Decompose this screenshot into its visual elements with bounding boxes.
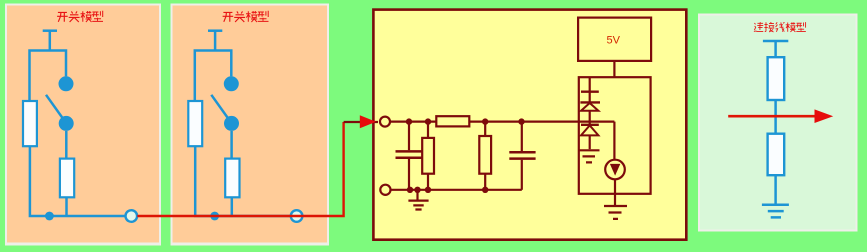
current source I1 circle <box>605 160 625 180</box>
capacitor C2 plates <box>509 152 535 158</box>
wire 5V box to diode block <box>613 61 615 78</box>
ground G1 bars <box>408 201 428 210</box>
switch model circuit panel 1 <box>23 31 137 222</box>
node dot top A <box>406 118 412 124</box>
capacitor C2 top lead <box>521 122 523 151</box>
diode D1 cathode bar upper <box>581 90 599 92</box>
bottom wire P2 rail <box>391 189 522 191</box>
diode D1 stem <box>589 92 591 103</box>
wire RA to RB <box>774 100 777 134</box>
port P2 circle <box>380 185 390 195</box>
capacitor C1 bottom lead <box>408 159 410 190</box>
capacitor C1 plates <box>396 151 423 157</box>
shunt resistor R2 leads <box>427 122 429 190</box>
red signal wire from panel1 terminal through panel2 <box>137 122 343 216</box>
current source I1 arrow <box>610 164 620 176</box>
wire-model terminal T bar <box>763 40 788 43</box>
red arrowhead into P1 <box>360 115 376 128</box>
red flow arrowhead <box>815 109 834 123</box>
wire R1 to current source branch <box>469 120 614 122</box>
label 开关模型 panel 2 <box>223 11 269 22</box>
shunt resistor R2 <box>422 138 434 174</box>
diode D2 cathode bar <box>581 124 599 126</box>
switch model circuit panel 2 <box>188 31 302 222</box>
wire-model resistor RB <box>768 134 785 176</box>
external ground stem <box>614 194 616 205</box>
red flow arrow line <box>728 115 816 118</box>
maroon wire stub into port P1 <box>344 121 378 123</box>
5V source box <box>578 18 651 61</box>
panel 2 frame (switch model) <box>171 4 330 246</box>
node dot bottom A <box>407 187 413 193</box>
ground G1 stem <box>416 190 418 200</box>
node dot top C <box>482 118 488 124</box>
wire RB to ground <box>774 175 777 203</box>
wire P1 to series resistor <box>390 120 436 122</box>
label 连接线模型 panel 3 <box>754 22 806 32</box>
series resistor R1 <box>436 116 469 126</box>
wire D1 to crossing <box>589 111 591 125</box>
capacitor C1 top lead <box>408 122 410 151</box>
shunt resistor R3 <box>479 136 491 174</box>
diode D1 cathode bar <box>580 101 600 103</box>
diode D1 triangle <box>581 103 598 111</box>
wire-model stem to resistor <box>774 41 777 57</box>
panel 1 frame (switch model) <box>5 4 161 246</box>
external ground bars <box>604 206 627 219</box>
panel 3 frame (wire model) <box>698 14 858 232</box>
wire-model resistor RA <box>768 57 785 100</box>
port P1 circle <box>380 117 390 127</box>
wire to current source <box>613 122 615 160</box>
yellow model box <box>373 10 686 240</box>
shunt resistor R3 leads <box>484 122 486 190</box>
diode D2 triangle <box>581 125 598 135</box>
node dot top B <box>425 118 431 124</box>
internal ground bars <box>579 150 600 162</box>
label 开关模型 panel 1 <box>57 11 103 22</box>
node dot bottom C <box>425 187 431 193</box>
diode chain stem from block top <box>589 78 591 91</box>
svg-text:5V: 5V <box>607 35 621 47</box>
capacitor C2 bottom lead <box>521 160 523 190</box>
node dot bottom D <box>482 187 488 193</box>
wire current source to block bottom <box>614 179 616 194</box>
node dot bottom B <box>414 187 420 193</box>
node dot top D <box>518 118 524 124</box>
wire D2 to internal ground <box>589 135 591 149</box>
wire-model ground bars <box>762 205 789 218</box>
diode block box <box>579 77 651 194</box>
